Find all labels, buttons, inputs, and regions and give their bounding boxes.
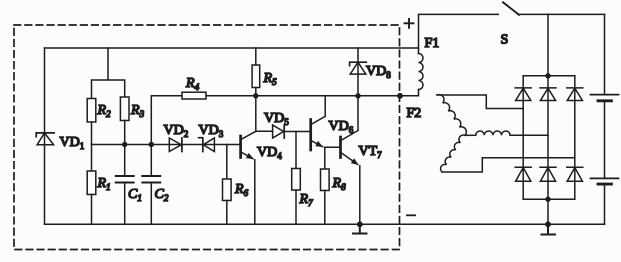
wire: drop to rectifier positive bus <box>547 14 549 75</box>
bridge diode bottom-middle <box>540 167 556 181</box>
stator coil A (top diagonal) <box>437 95 466 136</box>
label R6 <box>234 182 249 198</box>
rectifier leg 3 wire <box>574 76 576 199</box>
wire: battery positive feed with plus terminal <box>419 14 499 48</box>
label VD6 <box>329 119 354 135</box>
junction bridge positive <box>545 73 550 78</box>
wire: R3 bottom to node line <box>124 121 126 145</box>
stator phase A lead (top) <box>437 95 523 109</box>
resistor R6 <box>223 145 232 225</box>
svg-text:R3: R3 <box>130 103 145 119</box>
label VD3 <box>199 123 224 139</box>
label minus <box>407 214 415 216</box>
label R7 <box>299 192 314 208</box>
label F2 <box>407 106 422 121</box>
field winding F1-F2 (rotor coil) <box>400 48 423 96</box>
ground at VT7 emitter <box>353 221 367 233</box>
rectifier leg 1 wire <box>522 76 524 199</box>
regulator enclosure (dashed box) <box>14 25 400 250</box>
resistor R2 <box>87 99 96 123</box>
svg-text:VD1: VD1 <box>60 135 85 151</box>
label R2 <box>97 103 112 119</box>
wire: R2 bottom to divider node <box>91 122 93 145</box>
bridge diode top-right <box>567 88 583 101</box>
svg-text:C1: C1 <box>128 187 142 203</box>
junction F2 terminal on dashed border <box>397 93 403 99</box>
wire: bridge negative to ground rail <box>547 199 549 224</box>
wire: sensing node line to VT4 base <box>92 144 241 146</box>
resistor R1 <box>87 145 96 225</box>
svg-text:R2: R2 <box>97 103 112 119</box>
svg-text:VT7: VT7 <box>359 144 383 160</box>
label VD5 <box>264 111 289 127</box>
label R8 <box>332 176 347 192</box>
svg-text:VD4: VD4 <box>257 145 282 161</box>
label plus <box>405 19 414 28</box>
stator coil C (bottom diagonal) <box>441 135 465 172</box>
wire: main mid rail from R5 junction to field terminal F2 <box>256 95 400 97</box>
bridge diode bottom-left <box>515 167 531 181</box>
wire: bottom ground rail <box>45 223 605 225</box>
junction VD8/VT7 collector on mid rail <box>355 93 360 98</box>
wire: left rail (through VD1) <box>44 48 46 224</box>
rectifier leg 2 wire <box>547 76 549 199</box>
transistor VT6 (driver, labelled VD6) <box>311 96 341 150</box>
bridge diode top-left <box>515 88 531 101</box>
rectifier negative bus <box>523 198 575 200</box>
ground at rectifier <box>542 224 556 234</box>
svg-text:VD5: VD5 <box>264 111 289 127</box>
bridge diode top-middle <box>540 88 556 101</box>
svg-text:R8: R8 <box>332 176 347 192</box>
label R4 <box>185 76 200 92</box>
svg-text:VD6: VD6 <box>329 119 354 135</box>
capacitor C1 <box>116 145 134 225</box>
svg-text:F2: F2 <box>407 106 422 121</box>
stator coil B (middle horizontal) <box>465 131 548 135</box>
label F1 <box>425 36 440 51</box>
stator phase C lead (bottom) <box>442 158 575 172</box>
wire: switch to battery top <box>518 13 605 15</box>
bridge diode bottom-right <box>567 167 583 181</box>
battery (two cells) <box>591 14 619 224</box>
label VD4 <box>257 145 282 161</box>
junction on ground rail <box>545 221 551 227</box>
svg-text:R7: R7 <box>299 192 314 208</box>
switch S <box>503 2 519 15</box>
label VD1 <box>60 135 85 151</box>
resistor R8 <box>321 147 330 224</box>
node junction C2/R4 <box>149 142 154 147</box>
resistor R4 (horizontal) <box>151 92 256 144</box>
svg-text:R5: R5 <box>263 71 278 87</box>
wire: feed from top rail to R2/R3 bracket <box>92 48 125 99</box>
capacitor C2 <box>142 145 160 225</box>
svg-text:VD3: VD3 <box>199 123 224 139</box>
label C2 <box>155 187 169 203</box>
resistor R7 <box>292 132 301 225</box>
svg-text:C2: C2 <box>155 187 169 203</box>
node junction R3/C1 <box>122 142 127 147</box>
wire: top supply rail inside regulator <box>45 47 419 49</box>
svg-text:R4: R4 <box>185 76 200 92</box>
svg-text:R6: R6 <box>234 182 249 198</box>
label R1 <box>97 176 111 192</box>
svg-text:VD8: VD8 <box>366 64 391 80</box>
junction R4/R5 <box>253 93 258 98</box>
label VT7 <box>359 144 383 160</box>
label R3 <box>130 103 145 119</box>
freewheel zener diode VD8 <box>350 48 367 96</box>
label VD2 <box>164 123 189 139</box>
svg-text:S: S <box>501 33 509 48</box>
diode VD3 <box>199 138 215 152</box>
svg-text:F1: F1 <box>425 36 440 51</box>
label VD8 <box>366 64 391 80</box>
junction bridge negative <box>545 197 550 202</box>
zener diode VD1 <box>36 133 54 145</box>
diode VD2 <box>169 138 182 152</box>
rectifier bridge positive bus <box>523 75 575 77</box>
diode VD5 <box>256 125 311 138</box>
label R5 <box>263 71 278 87</box>
resistor R3 <box>120 97 129 121</box>
svg-text:R1: R1 <box>97 176 111 192</box>
transistor VT7 (power stage) <box>341 96 360 225</box>
svg-text:VD2: VD2 <box>164 123 189 139</box>
label C1 <box>128 187 142 203</box>
resistor R5 <box>252 48 260 131</box>
label S <box>501 33 509 48</box>
transistor VT4 (first stage) <box>241 131 256 224</box>
